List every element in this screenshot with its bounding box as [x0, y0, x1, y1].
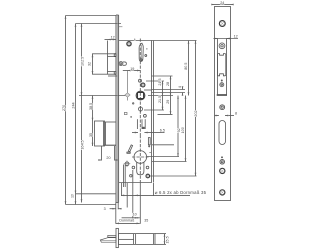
hole right of cylinder: [146, 166, 149, 169]
cylinder hole stem: [137, 162, 144, 175]
svg-text:35: 35: [89, 133, 93, 137]
extension y176 screw axis: [150, 175, 197, 177]
top fixing screw: [127, 42, 131, 46]
svg-text:29: 29: [166, 100, 170, 104]
dim 20 extension right: [114, 146, 116, 161]
dim 10 tail: [122, 217, 133, 219]
dim 19 line: [128, 70, 141, 72]
svg-text:8: 8: [235, 112, 237, 116]
dim 21.5 lower line: [162, 96, 164, 111]
dim 80.5 line: [188, 41, 190, 96]
mid circle outer: [220, 105, 225, 110]
dim 15.5 extension bottom: [155, 243, 166, 245]
extension y92.5: [152, 92, 186, 94]
faceplate back line: [118, 15, 120, 203]
svg-text:80.5: 80.5: [184, 63, 188, 70]
small element right of CL: [148, 138, 150, 145]
latch retainer hook: [123, 62, 127, 65]
case side flange line: [153, 41, 155, 183]
extension y110: [144, 109, 164, 111]
circle with cross left of cylinder: [125, 162, 129, 166]
svg-text:6.5: 6.5: [160, 128, 165, 132]
svg-text:15.5: 15.5: [166, 236, 170, 243]
faceplate front line: [115, 15, 117, 203]
latch tip wedge: [100, 238, 116, 243]
pawl lever: [128, 145, 132, 152]
faceplate bottom cap: [116, 202, 119, 204]
latch corner mark top: [114, 54, 116, 57]
hole lower left: [130, 175, 132, 177]
latch opening: [217, 54, 225, 76]
follower axis extension left: [79, 95, 125, 97]
tiny dot below slot: [221, 157, 222, 158]
tiny mark right 1: [149, 146, 150, 147]
guide slot left line: [123, 165, 125, 188]
dim 202 line: [195, 41, 197, 177]
dim 12 line across: [215, 38, 239, 40]
bottom extension x127.2: [126, 183, 128, 208]
bolt stump pin: [142, 127, 145, 129]
dim 270 line: [65, 16, 67, 205]
latch spring inner line: [140, 45, 142, 61]
deadbolt stem bottom: [105, 144, 117, 146]
guide slot right line: [124, 165, 126, 188]
dim Dornmass 35 line: [116, 222, 140, 224]
svg-text:100: 100: [181, 127, 185, 133]
tiny square tag: [124, 112, 127, 114]
svg-text:35: 35: [144, 219, 148, 223]
dim 270 bottom extension line: [66, 204, 116, 206]
dim 28 line: [170, 76, 172, 96]
extension y76: [152, 75, 173, 77]
dim 8 tail: [229, 115, 234, 117]
dim 8 arrow right: [225, 115, 229, 117]
dim 244 top extension line: [76, 23, 122, 25]
dim 32 extension top: [92, 53, 108, 55]
aux hole h-cross: [125, 94, 131, 96]
dim 6.5 arrow right: [144, 132, 148, 134]
dim 4 arrow upper: [182, 87, 184, 90]
case notch line y90: [144, 89, 152, 91]
extension y161.5: [152, 161, 187, 163]
svg-text:20: 20: [106, 156, 110, 160]
dim 6.5 tail: [149, 132, 165, 134]
svg-text:12: 12: [234, 34, 238, 38]
latch bolt upper step: [108, 55, 117, 57]
faceplate side view: [116, 228, 118, 247]
lower fixing screw: [146, 174, 150, 178]
extension y81: [146, 80, 164, 82]
bolt stump slot left: [141, 119, 143, 129]
mid circle inner: [221, 106, 223, 108]
circle below follower: [139, 107, 143, 111]
main centerline: [139, 39, 141, 136]
extension y156.5 cylinder axis: [147, 156, 179, 158]
bottom extension hole axis: [132, 170, 134, 218]
small circle above follower: [139, 79, 142, 82]
case side divider 2: [135, 234, 137, 245]
latch bolt: [108, 54, 117, 74]
dim 32 line: [92, 54, 94, 74]
latch top bar side view: [108, 235, 116, 237]
small circle below latch opening: [220, 83, 224, 87]
dim 13 line: [75, 194, 77, 205]
deadbolt stem top: [105, 121, 117, 123]
tiny mark right 2: [150, 152, 151, 153]
svg-text:21.5: 21.5: [158, 96, 162, 103]
bottom extension x121.6: [121, 183, 123, 196]
bolt stump slot far left: [136, 119, 138, 129]
dim 21.5 upper line: [162, 81, 164, 96]
dim 102.5 line: [81, 24, 83, 96]
dim 19 tail left: [123, 70, 128, 72]
extension y144.8: [152, 144, 174, 146]
spring bottom circle: [140, 59, 142, 61]
upper adjuster inner circle: [221, 45, 223, 47]
dim 20 extension left: [101, 146, 103, 161]
dim 12 line: [108, 39, 117, 41]
dim 244 line: [75, 24, 77, 194]
cylinder v-centerline: [139, 135, 141, 180]
svg-text:21.5: 21.5: [158, 78, 162, 85]
extension y89.5: [152, 89, 186, 91]
dim 15.5 extension top: [155, 233, 166, 235]
dim 24 arrow right: [231, 4, 234, 6]
svg-text:12: 12: [111, 36, 115, 40]
top countersunk screw: [219, 21, 225, 27]
svg-text:13: 13: [71, 194, 75, 198]
svg-text:270: 270: [62, 105, 66, 111]
dim 164.5 line: [81, 96, 83, 203]
small circle inner: [221, 84, 223, 86]
svg-text:38.5: 38.5: [89, 103, 93, 110]
faceplate top step line: [119, 26, 123, 28]
latch retainer center: [120, 63, 122, 65]
case side inner mid line: [118, 238, 133, 240]
extension case top right: [152, 40, 197, 42]
cross v: [126, 161, 128, 168]
cross h: [124, 163, 131, 165]
latch corner mark bottom: [114, 72, 116, 75]
dim 32 extension bottom: [92, 73, 108, 75]
bottom extension faceplate back: [117, 203, 119, 210]
svg-text:28: 28: [166, 82, 170, 86]
upper adjuster outer circle: [219, 43, 225, 49]
latch spring leaf: [139, 43, 143, 61]
svg-text:Dornmaß: Dornmaß: [119, 219, 135, 223]
dim 244 bottom extension line: [76, 193, 116, 195]
dim 19 extension: [127, 71, 129, 101]
note leader second arrow: [135, 194, 140, 196]
follower axis extension right: [148, 95, 173, 97]
cylinder hole circle: [134, 151, 147, 164]
deadbolt head inner line: [103, 121, 105, 146]
svg-text:4: 4: [178, 86, 182, 88]
follower square hole: [137, 92, 143, 98]
svg-text:3: 3: [104, 207, 106, 211]
dim 12 arrow right: [227, 38, 231, 40]
svg-text:32: 32: [88, 62, 92, 66]
latch guide line: [108, 75, 117, 77]
svg-text:⌀ 6.5 2x ab Dornmaß 35: ⌀ 6.5 2x ab Dornmaß 35: [155, 190, 207, 195]
svg-text:244: 244: [71, 102, 75, 108]
crossbar: [217, 94, 227, 96]
tiny dot left of pin: [130, 116, 132, 118]
faceplate middle line: [116, 15, 118, 203]
case side end inner line: [153, 234, 155, 245]
pawl foot bar: [127, 152, 130, 153]
deadbolt stem front line: [105, 122, 107, 145]
dim 3 arrow right: [118, 208, 121, 210]
small dash mark: [146, 48, 147, 50]
case side divider 1: [133, 234, 135, 245]
svg-text:202: 202: [194, 110, 198, 116]
hole left of cylinder: [132, 166, 135, 169]
lower adjuster inner: [221, 161, 223, 163]
dim 38.5 line: [92, 96, 94, 122]
bolt pin ring: [144, 114, 147, 117]
bottom screw 1: [220, 168, 225, 173]
aux hole circle: [126, 93, 130, 97]
latch wedge inner line: [101, 239, 116, 241]
small ring right of spring: [145, 55, 147, 57]
cylinder h-centerline: [132, 156, 149, 158]
case side view: [118, 234, 155, 245]
lower adjuster outer: [220, 160, 225, 165]
dim 92 line: [177, 96, 179, 157]
dim 270 top extension line: [66, 15, 117, 17]
follower ring: [136, 91, 145, 100]
bolt stump slot right: [144, 119, 146, 129]
extension y114.5: [158, 114, 173, 116]
dim 100 line: [185, 96, 187, 162]
screw above follower: [141, 83, 145, 87]
deadbolt slot opening: [219, 121, 226, 145]
deadbolt head: [95, 121, 105, 146]
faceplate front outline: [215, 7, 231, 201]
lock case outline: [119, 41, 152, 183]
dim 10 line: [133, 217, 140, 219]
dim 6.5 arrow left: [132, 132, 138, 134]
svg-text:10: 10: [133, 213, 137, 217]
inner channel right line: [226, 39, 228, 95]
bottom screw 2: [220, 190, 225, 195]
svg-text:102.5: 102.5: [81, 57, 85, 66]
note leader line: [121, 194, 190, 196]
dim 4 arrow lower: [182, 93, 184, 96]
circle below follower v-cross: [140, 106, 142, 112]
latch bolt lower step: [108, 71, 117, 73]
dim 24 line: [215, 4, 231, 6]
bottom extension x153.5: [153, 183, 155, 196]
dim 12 arrow left: [214, 38, 218, 40]
dim 15.5 line: [164, 234, 166, 245]
dim 12 extension (latch face): [107, 41, 109, 55]
dim 24 arrow left: [212, 4, 215, 6]
svg-text:19: 19: [130, 67, 134, 71]
dim 8 arrow left: [215, 115, 219, 117]
inner channel left line: [217, 39, 219, 95]
latch retainer circle: [119, 62, 123, 66]
svg-text:24: 24: [220, 1, 224, 5]
dim 29 line: [170, 96, 172, 115]
dim 35 line: [92, 121, 94, 146]
dim 3 arrow left: [110, 208, 116, 210]
bottom extension main CL: [139, 180, 141, 224]
small dot below latch opening: [221, 80, 222, 81]
tiny circle below right of aux: [133, 103, 134, 104]
faceplate top cap: [116, 14, 119, 16]
svg-text:164.5: 164.5: [81, 140, 85, 149]
dim 20 arrow right: [115, 159, 118, 161]
bottom extension faceplate front: [115, 203, 117, 224]
dim 20 arrow left: [99, 159, 101, 161]
dim 12 tail: [105, 39, 108, 41]
